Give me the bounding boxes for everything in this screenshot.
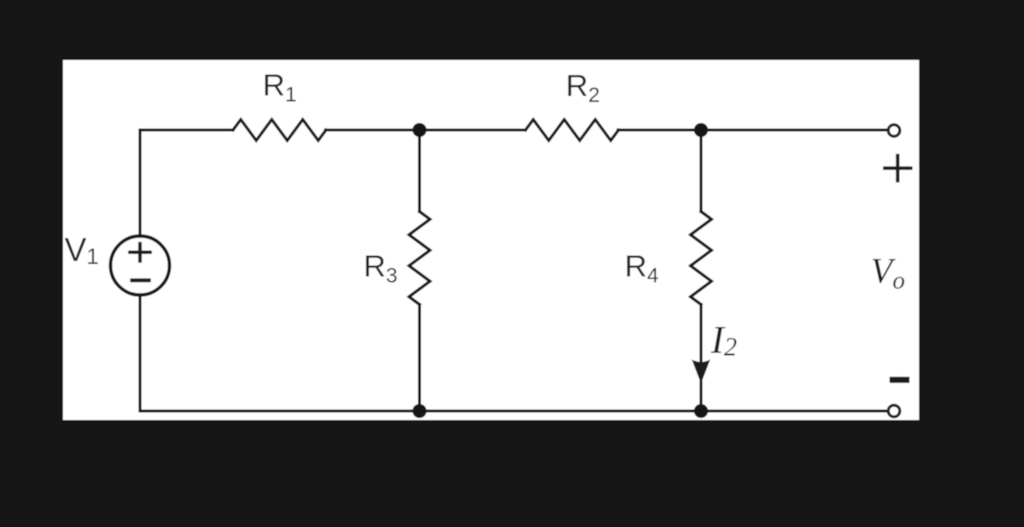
node B (R2/R4 junction) — [694, 123, 708, 137]
current arrow I2 (arrowhead) — [692, 360, 710, 384]
wire: R4 upper lead — [700, 130, 703, 212]
wire: R3 lower lead — [418, 305, 421, 412]
node A (R1/R2/R3 junction) — [413, 123, 427, 137]
resistor R3 (vertical zigzag) — [409, 212, 430, 305]
wire: R4 lower lead with I2 current — [700, 305, 703, 412]
node C (bottom rail / R3) — [413, 404, 427, 418]
wire: left vertical lower (V1 bottom to bottom rail) — [139, 296, 142, 412]
voltage source V1 (circle) — [111, 236, 170, 295]
V1 minus sign — [130, 278, 151, 282]
V1 plus sign — [128, 242, 152, 263]
node D (bottom rail / R4) — [694, 404, 708, 418]
wire: top-left horizontal from corner to R1 — [140, 129, 233, 132]
output terminal - (open circle) — [888, 405, 900, 417]
wire: R3 upper lead — [418, 130, 421, 212]
resistor R1 (zigzag) — [233, 120, 326, 141]
output terminal + (open circle) — [888, 125, 900, 137]
wire: top between node A and R2 — [420, 129, 526, 132]
resistor R2 (zigzag) — [526, 120, 619, 141]
output minus sign — [890, 377, 910, 383]
wire: left vertical upper (corner to V1 top) — [139, 130, 142, 236]
wire: top between R1 and node A — [326, 129, 420, 132]
wire: top from node B to output terminal — [701, 129, 887, 132]
wire: top between R2 and node B — [618, 129, 701, 132]
white schematic panel — [63, 60, 919, 420]
resistor R4 (vertical zigzag) — [691, 212, 712, 305]
output plus sign — [883, 154, 913, 183]
wire: bottom rail — [140, 410, 887, 413]
